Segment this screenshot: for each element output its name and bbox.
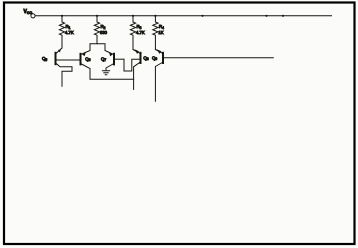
svg-text:4.7K: 4.7K — [136, 30, 145, 35]
resistor R4 1K — [153, 16, 164, 50]
svg-text:R2: R2 — [101, 24, 106, 30]
wire Q6 collector step — [82, 64, 134, 79]
svg-text:Q5: Q5 — [42, 56, 47, 62]
svg-text:Q7: Q7 — [101, 56, 106, 62]
resistor R2 830 — [94, 16, 107, 44]
svg-text:Q9: Q9 — [152, 55, 157, 61]
Vcc terminal — [24, 9, 36, 18]
wire Q8 base loop — [124, 59, 140, 71]
transistor Q7 — [101, 52, 124, 71]
transistor Q8 — [133, 49, 149, 89]
svg-text:VCC: VCC — [24, 9, 33, 15]
svg-text:1K: 1K — [158, 30, 163, 35]
node rail junctions — [61, 15, 284, 17]
svg-text:4.7K: 4.7K — [65, 30, 74, 35]
svg-text:R1: R1 — [66, 24, 71, 30]
svg-text:R3: R3 — [137, 24, 142, 30]
wire Q9 base to Q19/Q21 (long horizontal) — [164, 57, 273, 59]
ground (Q7 collector) — [102, 71, 109, 75]
transistor Q6 — [81, 42, 114, 65]
resistor R1 4.7K — [59, 16, 73, 48]
svg-text:Q6: Q6 — [85, 56, 90, 62]
wire Vcc top rail — [35, 15, 331, 17]
svg-text:Q8: Q8 — [143, 55, 148, 61]
transistor Q9 — [152, 49, 163, 101]
svg-text:830: 830 — [100, 30, 108, 35]
svg-text:R4: R4 — [159, 24, 164, 30]
transistor Q5 — [42, 48, 80, 86]
resistor R3 4.7K — [130, 16, 144, 50]
